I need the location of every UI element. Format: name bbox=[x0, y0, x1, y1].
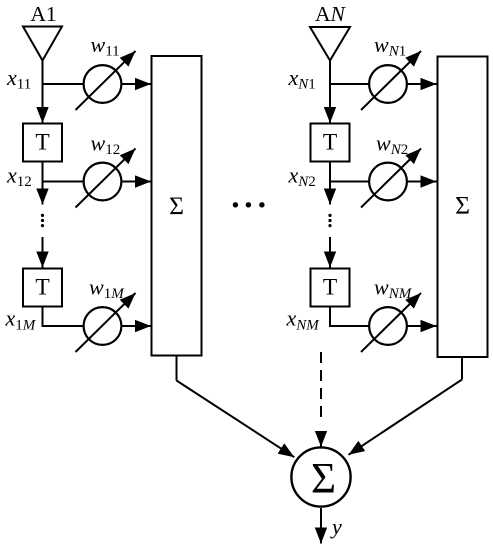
svg-text:AN: AN bbox=[315, 2, 347, 26]
svg-text:y: y bbox=[330, 514, 342, 539]
weight multiplier WN1 bbox=[369, 65, 407, 103]
svg-text:T: T bbox=[35, 130, 49, 156]
wire WN2 to summer bbox=[408, 181, 437, 183]
node xN2 junction wire bbox=[330, 181, 369, 183]
delay T (row1 right) bbox=[311, 124, 350, 162]
svg-text:Σ: Σ bbox=[311, 456, 336, 503]
svg-text:T: T bbox=[35, 275, 49, 301]
svg-text:x11: x11 bbox=[6, 65, 31, 93]
wire WNM to summer bbox=[408, 325, 437, 327]
svg-text:w11: w11 bbox=[91, 32, 120, 60]
weight W12 adjust arrow bbox=[76, 149, 136, 208]
wire W11 to summer bbox=[122, 83, 151, 85]
node x12 junction wire bbox=[43, 181, 84, 183]
svg-text:x1M: x1M bbox=[5, 306, 37, 334]
weight W1M adjust arrow bbox=[76, 293, 136, 352]
wire arrow into T (rowM right) bbox=[329, 237, 331, 268]
svg-text:w1M: w1M bbox=[89, 275, 125, 303]
wire T to xN2 bbox=[329, 162, 331, 182]
wire T to x12 bbox=[42, 162, 44, 182]
node xN1 junction wire bbox=[330, 83, 369, 85]
svg-text:w12: w12 bbox=[91, 131, 121, 159]
output wire y bbox=[320, 508, 322, 544]
svg-text:A1: A1 bbox=[30, 2, 56, 26]
wire arrow into T (rowM left) bbox=[42, 237, 44, 268]
weight multiplier WNM bbox=[369, 307, 407, 345]
ellipsis vertical right bbox=[328, 214, 331, 227]
wire right summer to output summer bbox=[461, 357, 463, 380]
svg-text:T: T bbox=[323, 275, 337, 301]
weight WN1 adjust arrow bbox=[361, 51, 421, 110]
wire W12 to summer bbox=[122, 181, 151, 183]
svg-text:x12: x12 bbox=[6, 163, 32, 191]
wire T to x1M corner bbox=[43, 307, 84, 327]
weight multiplier W1M bbox=[84, 307, 122, 345]
svg-text:xN2: xN2 bbox=[288, 163, 316, 191]
svg-text:Σ: Σ bbox=[169, 191, 184, 220]
wire antenna A1 down with arrow into T bbox=[42, 61, 44, 124]
summer box left bbox=[152, 56, 202, 356]
wire arrow down from x12 bbox=[42, 182, 44, 205]
svg-text:wN1: wN1 bbox=[374, 32, 406, 60]
delay T (rowM right) bbox=[311, 269, 350, 307]
delay T (rowM left) bbox=[23, 269, 62, 307]
weight W11 adjust arrow bbox=[76, 51, 136, 110]
ellipsis vertical left bbox=[41, 214, 44, 227]
summer box right bbox=[438, 57, 488, 358]
weight multiplier W11 bbox=[84, 65, 122, 103]
svg-text:T: T bbox=[323, 130, 337, 156]
weight multiplier W12 bbox=[84, 163, 122, 201]
ellipsis horizontal middle bbox=[233, 202, 265, 207]
weight WN2 adjust arrow bbox=[361, 149, 421, 208]
wire T to xNM corner bbox=[330, 307, 369, 327]
output summer circle bbox=[291, 447, 350, 506]
svg-text:wNM: wNM bbox=[374, 275, 413, 303]
svg-text:wN2: wN2 bbox=[376, 131, 408, 159]
wire arrow down from xN2 bbox=[329, 182, 331, 205]
dashed wire other branches to output summer bbox=[320, 352, 322, 417]
svg-text:Σ: Σ bbox=[455, 191, 470, 220]
svg-text:xN1: xN1 bbox=[288, 65, 316, 93]
weight multiplier WN2 bbox=[369, 163, 407, 201]
wire antenna AN down with arrow into T bbox=[329, 61, 331, 124]
delay T (row1 left) bbox=[23, 124, 62, 162]
wire left summer to output summer bbox=[176, 356, 178, 381]
wire W1M to summer bbox=[122, 325, 151, 327]
antenna AN bbox=[310, 27, 350, 61]
node x11 junction wire bbox=[43, 83, 84, 85]
weight WNM adjust arrow bbox=[361, 293, 421, 352]
antenna A1 bbox=[23, 27, 62, 61]
svg-text:xNM: xNM bbox=[286, 306, 321, 334]
wire WN1 to summer bbox=[408, 83, 437, 85]
